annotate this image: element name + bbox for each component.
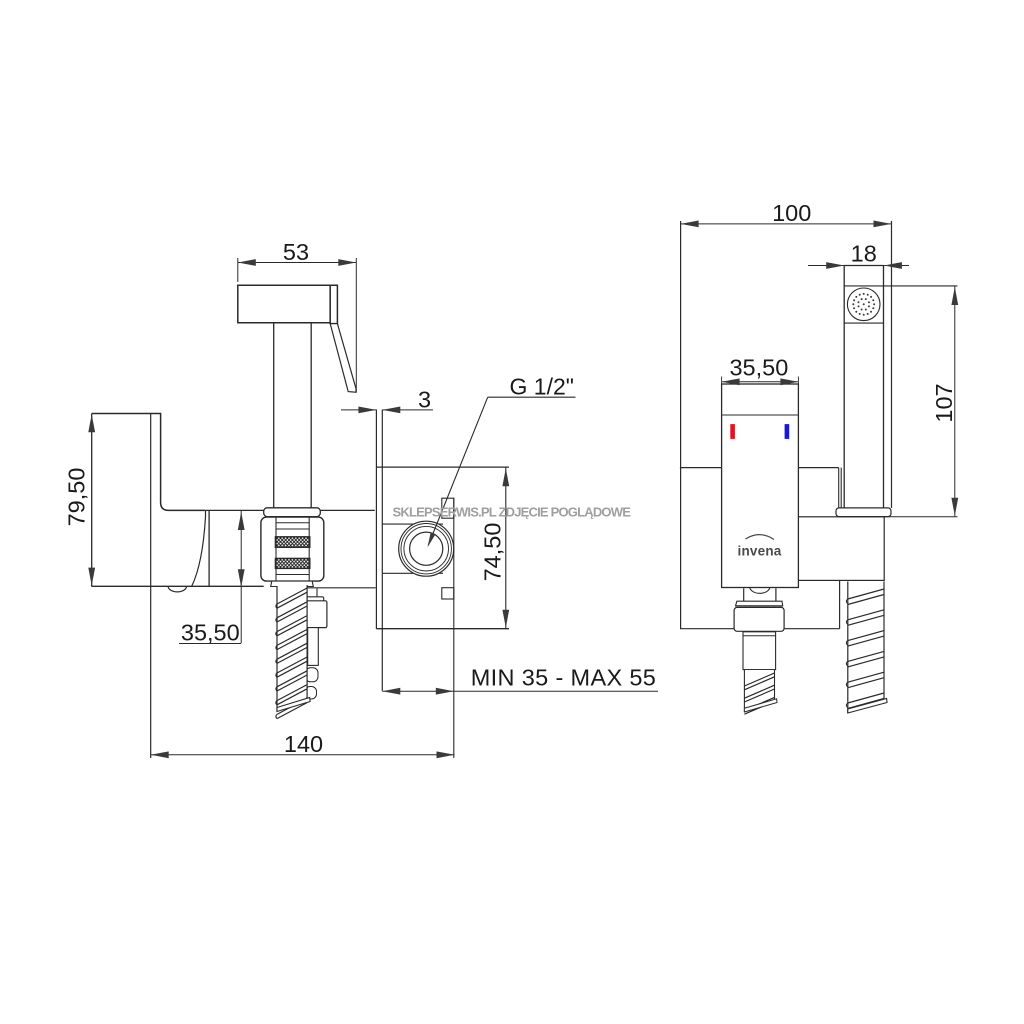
G1/2 connection circles	[399, 521, 454, 576]
sprayer stem	[273, 323, 275, 508]
nut top inner line 2	[276, 528, 309, 530]
mixer hose collar	[736, 601, 783, 606]
wall plate top edge segments	[680, 467, 722, 469]
svg-text:107: 107	[931, 383, 957, 422]
valve box body	[376, 466, 509, 468]
mixer hose bottom tip	[744, 699, 777, 712]
dim 53 line	[238, 262, 356, 264]
spray nozzle dots	[852, 293, 875, 316]
shower holder flange	[836, 508, 891, 517]
hose collar under stem	[264, 508, 321, 517]
dim 35,50 right view	[722, 381, 799, 383]
bracket left edge / 79,50 dimension line	[91, 414, 93, 587]
dim 18 line with shower top	[808, 265, 909, 267]
check valve body	[306, 601, 327, 628]
dim 3 arrows	[341, 409, 376, 411]
dim 107 line	[954, 286, 956, 517]
mixer ball joint arc	[750, 588, 770, 594]
shower hose edges	[847, 582, 849, 714]
sprayer hose spiral edges	[276, 586, 278, 712]
mixer neck	[743, 588, 745, 601]
wall surface line right	[381, 410, 383, 691]
svg-text:79,50: 79,50	[64, 468, 90, 527]
wall plate right edge	[891, 221, 893, 508]
shower head bottom line	[844, 322, 883, 324]
nut inner left line	[275, 518, 277, 581]
svg-text:3: 3	[418, 387, 431, 413]
invena logo	[746, 535, 775, 540]
nut lower inner line	[276, 574, 309, 576]
hand shower body front view	[843, 266, 845, 509]
valve box inner line upper	[382, 523, 443, 525]
dim 74,50 line	[505, 467, 507, 629]
shower hose bottom tip	[848, 699, 887, 714]
nut top inner line	[276, 522, 309, 524]
nut inner right line	[308, 518, 310, 581]
svg-text:35,50: 35,50	[181, 620, 240, 646]
holder block left edge	[208, 510, 210, 586]
svg-text:SKLEPSERWIS.PL ZDJĘCIE POGLĄDO: SKLEPSERWIS.PL ZDJĘCIE POGLĄDOWE	[393, 505, 632, 520]
mixer hose nut	[734, 607, 784, 631]
dim 35,50 vertical line (left view)	[240, 511, 242, 643]
wall plate lower right edge	[839, 580, 841, 628]
valve box inner line lower	[382, 572, 443, 574]
nut knurl band 1	[275, 537, 309, 548]
dim 140	[151, 754, 455, 756]
wire: wall mounting plate vertical line (left view)	[150, 414, 152, 759]
holder block front view	[798, 517, 884, 581]
mixer cap divider	[722, 414, 799, 416]
wall surface line left	[375, 410, 377, 629]
svg-text:100: 100	[772, 200, 811, 226]
nut bottom flange	[271, 581, 314, 586]
sprayer trigger lever	[330, 324, 356, 393]
red hot marker	[730, 424, 735, 439]
bracket wall-mount L-plate	[92, 414, 205, 511]
shower head divider / 107 top extension	[844, 285, 957, 287]
check valve tube	[308, 628, 319, 666]
svg-text:74,50: 74,50	[480, 523, 506, 582]
svg-text:35,50: 35,50	[729, 355, 788, 381]
hose loop bump A	[306, 668, 319, 682]
hose loop bump B	[305, 687, 317, 700]
svg-text:G 1/2": G 1/2"	[510, 374, 574, 400]
valve box step tab top	[442, 498, 454, 518]
svg-text:53: 53	[283, 239, 309, 265]
connection nut on sprayer hose	[261, 517, 324, 581]
holder arm lines	[838, 468, 840, 508]
nut knurl band 2	[275, 558, 309, 568]
holder cradle arc	[205, 510, 207, 517]
dim 100 line	[681, 223, 892, 225]
holder cradle bottom bump	[168, 586, 186, 592]
sprayer trigger upper strip	[330, 285, 337, 323]
wall max line / extension	[453, 498, 455, 758]
svg-text:140: 140	[284, 731, 323, 757]
dim 35,50 extension ticks	[721, 377, 723, 385]
shower hose spiral	[848, 582, 884, 714]
sprayer head body	[238, 285, 330, 322]
valve box step tab bottom	[442, 588, 454, 599]
lower line holder-to-wall	[300, 587, 376, 589]
sprayer hose bottom tip	[277, 698, 310, 712]
blue cold marker	[785, 424, 790, 439]
holder top line to wall	[205, 509, 375, 511]
sprayer hose spiral	[277, 585, 307, 711]
dim MIN 35 - MAX 55	[382, 690, 658, 692]
dim 53 extension lines	[237, 258, 239, 282]
wall plate bottom edge	[680, 628, 840, 630]
spray face circle	[847, 288, 880, 321]
mixer body front view	[722, 384, 799, 588]
svg-text:invena: invena	[738, 544, 782, 559]
wall plate front view left edge	[680, 221, 682, 629]
svg-text:18: 18	[851, 241, 877, 267]
check valve cap	[307, 597, 324, 602]
svg-text:MIN 35 - MAX 55: MIN 35 - MAX 55	[471, 665, 656, 691]
bracket bottom edge	[91, 585, 263, 587]
107 bottom extension line	[884, 516, 957, 518]
mixer hose spiral	[744, 670, 774, 712]
mixer hose tube	[743, 632, 776, 670]
check valve neck line	[316, 588, 318, 597]
